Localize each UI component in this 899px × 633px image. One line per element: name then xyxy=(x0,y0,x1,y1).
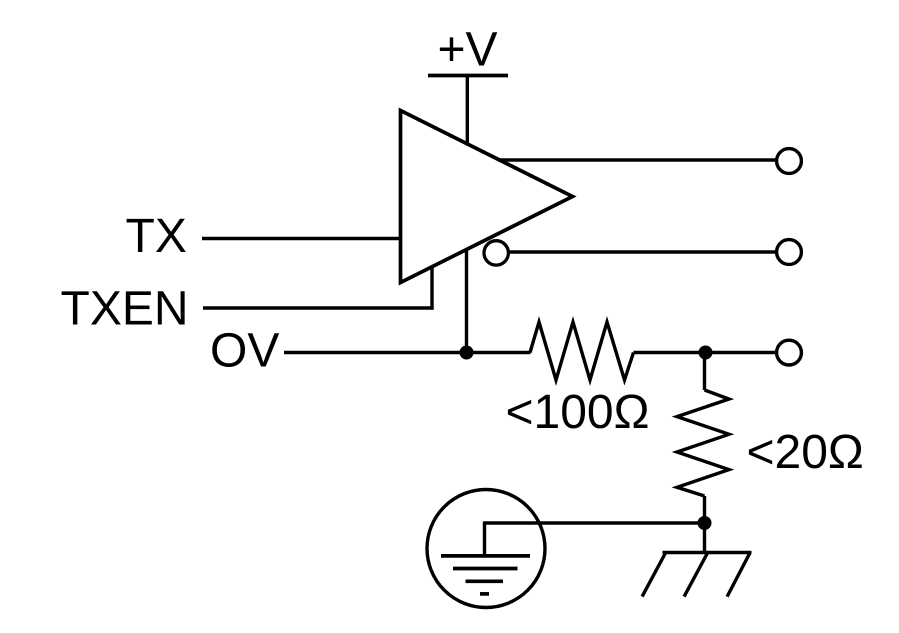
wire TXEN vertical to enable pin xyxy=(430,266,433,310)
chassis ground stroke 1 xyxy=(642,554,665,597)
wire TXEN input horizontal xyxy=(203,306,434,309)
junction output node dot xyxy=(699,346,713,360)
svg-text:OV: OV xyxy=(210,324,279,377)
resistor R1 <100ohm horizontal zigzag xyxy=(530,322,634,380)
protective earth bar 1 xyxy=(441,554,530,558)
svg-text:<100Ω: <100Ω xyxy=(506,386,650,439)
protective earth bar 4 xyxy=(480,592,489,596)
svg-text:TX: TX xyxy=(126,210,187,263)
wire driver output A from top edge xyxy=(500,158,777,161)
inversion bubble on U1 output B xyxy=(484,241,508,265)
chassis ground stroke 2 xyxy=(684,554,707,597)
wire +V rail to driver top xyxy=(466,75,469,144)
wire output node down to R2 xyxy=(703,353,706,391)
wire driver output B xyxy=(508,250,777,253)
power rail +V bar xyxy=(428,74,508,78)
wire R2 to ground node xyxy=(703,496,706,552)
wire OV input xyxy=(284,351,531,354)
wire TX input xyxy=(202,237,400,240)
chassis ground bar xyxy=(663,551,752,554)
wire R1 to output node xyxy=(634,351,777,354)
protective earth bar 3 xyxy=(466,579,504,583)
buffer U1 line driver triangle xyxy=(401,111,573,283)
junction ground node dot xyxy=(698,516,712,530)
wire driver ground pin down to OV node xyxy=(465,250,468,353)
protective earth bar 2 xyxy=(453,567,518,571)
terminal output B circle xyxy=(777,240,802,265)
svg-text:<20Ω: <20Ω xyxy=(747,426,864,479)
junction OV node dot xyxy=(460,346,474,360)
terminal output A circle xyxy=(777,149,802,174)
protective earth stem xyxy=(483,521,486,554)
svg-text:+V: +V xyxy=(438,24,498,77)
svg-text:TXEN: TXEN xyxy=(61,283,189,336)
protective earth circle xyxy=(427,490,545,608)
terminal OV output circle xyxy=(777,340,802,365)
chassis ground stroke 3 xyxy=(727,554,750,597)
wire earth symbol to ground node xyxy=(485,521,705,524)
resistor R2 <20ohm vertical zigzag xyxy=(677,390,729,496)
